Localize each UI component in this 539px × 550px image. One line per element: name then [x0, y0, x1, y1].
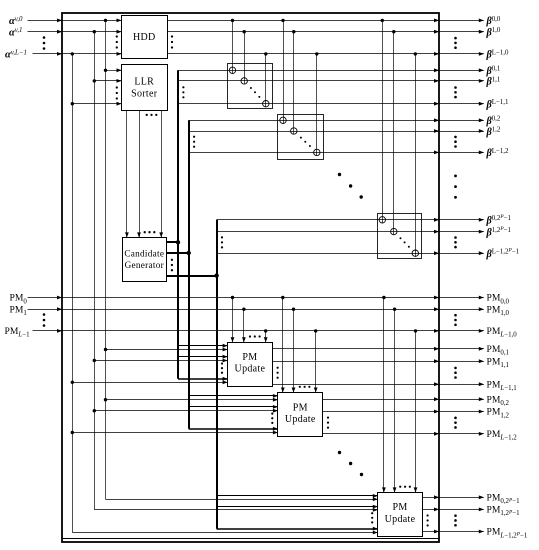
- wire PM tap vertical U3 1: [394, 309, 396, 492]
- wire PM tap vertical U1 1: [243, 309, 245, 342]
- wire PM tap vertical U2 2: [315, 331, 317, 393]
- wire beta output L&#8722;1,2P: [439, 253, 484, 255]
- block PM Update U2: [278, 393, 323, 437]
- ellipsis left of U2: [271, 413, 273, 415]
- ellipsis candidate generator outputs: [171, 259, 173, 261]
- ellipsis in beta group0 labels: [454, 37, 457, 40]
- wire U3 output 1 to border: [422, 509, 439, 511]
- wire beta output 0 group0: [439, 20, 484, 22]
- ellipsis HDD input: [116, 35, 118, 37]
- svg-text:Update: Update: [385, 514, 416, 525]
- block PM Update U3: [378, 493, 423, 537]
- block Candidate Generator: [123, 238, 167, 282]
- wire U1 output 2 to border: [272, 384, 439, 386]
- wire alpha feed to U2 input 1: [94, 410, 278, 412]
- wire HDD output row 0 to border: [167, 20, 439, 22]
- ellipsis left of U1: [221, 362, 223, 364]
- wire bus3 branch to U3 input 2: [217, 528, 378, 530]
- bus 3 vertical (thick): [216, 220, 218, 529]
- wire alpha feed to U3 input 2: [72, 532, 378, 534]
- wire U1 output 1 to label: [439, 361, 484, 363]
- wire LLR sorter input 1: [94, 80, 121, 82]
- wire U1 output 0 to border: [272, 348, 439, 350]
- wire U2 output 0 to border: [323, 399, 439, 401]
- wire U2 output 1 to border: [323, 411, 439, 413]
- wire beta row 0,2P horizontal: [217, 219, 439, 221]
- wire U3 output 2 to label: [439, 531, 484, 533]
- wire beta row L&#8722;1,2 horizontal: [189, 152, 439, 154]
- block HDD: [122, 16, 168, 59]
- crossbar box B: [278, 115, 324, 160]
- wire inner bottom rail: [62, 538, 439, 540]
- wire beta row 1,1 horizontal: [178, 80, 439, 82]
- outer border frame of architecture: [62, 13, 439, 542]
- wire HDD output row 1 to border: [167, 31, 439, 33]
- crossbar A switch node 0: [229, 67, 235, 73]
- wire beta output 1,2P: [439, 231, 484, 233]
- wire bus3 branch to U3 input 1: [217, 506, 378, 508]
- wire PM input row 0: [28, 297, 440, 299]
- wire alpha feed to U2 input 2: [72, 432, 278, 434]
- wire alpha input 2 to HDD: [33, 53, 122, 55]
- svg-text:PM: PM: [293, 402, 308, 413]
- wire beta output L&#8722;1,1: [439, 103, 484, 105]
- wire bus2 branch to U2 input 2: [189, 428, 278, 430]
- wire alpha input 1 to HDD: [28, 31, 122, 33]
- bus 2 vertical (thick): [188, 120, 190, 429]
- ellipsis diagonal between crossbars B and C: [338, 173, 341, 176]
- wire A tap vertical 0: [232, 20, 234, 73]
- ellipsis PM labels group U3: [454, 514, 457, 517]
- svg-text:Generator: Generator: [125, 260, 164, 270]
- wire candidate generator output 0 (thick): [167, 241, 178, 243]
- ellipsis HDD output: [171, 35, 173, 37]
- ellipsis diagonal between PM Update U2 and U3: [338, 451, 341, 454]
- wire beta output 0,2: [439, 120, 484, 122]
- ellipsis right of U2: [327, 417, 329, 419]
- svg-text:HDD: HDD: [133, 32, 156, 43]
- wire beta row 1,2 horizontal: [189, 131, 439, 133]
- wire LLR sorter input 2: [72, 103, 121, 105]
- wire PM passthrough output 2: [439, 330, 484, 332]
- wire bus2 branch to U2 input 0: [189, 395, 278, 397]
- wire U2 output 2 to border: [323, 433, 439, 435]
- wire alpha feed to U1 input 0: [106, 349, 228, 351]
- ellipsis beta labels group C: [454, 236, 457, 239]
- wire PM tap vertical U3 0: [383, 298, 385, 493]
- wire B tap vertical 1: [293, 32, 295, 135]
- wire C tap vertical 0: [382, 20, 384, 223]
- crossbar A dotted diagonal: [250, 87, 252, 89]
- ellipsis C bracket: [221, 236, 223, 238]
- svg-text:Sorter: Sorter: [131, 88, 158, 99]
- wire alpha feed to U1 input 1: [94, 360, 227, 362]
- wire PM passthrough output 1: [439, 309, 484, 311]
- wire alpha feed to U3 input 1: [94, 509, 378, 511]
- svg-text:Candidate: Candidate: [124, 248, 164, 258]
- wire bus1 branch to U1 input 1: [178, 356, 228, 358]
- wire alpha feed to U1 input 2: [72, 382, 227, 384]
- wire beta output 2 group0: [439, 53, 484, 55]
- wire A tap vertical 2: [265, 54, 267, 107]
- wire beta output 0,2P: [439, 219, 484, 221]
- crossbar C switch node 1: [391, 228, 397, 234]
- svg-text:PM: PM: [392, 502, 407, 513]
- ellipsis between PM input labels: [43, 313, 46, 316]
- block PM Update U1: [228, 343, 273, 387]
- wire alpha feed to U3 input 0: [106, 499, 378, 501]
- ellipsis LLR input: [116, 86, 118, 88]
- ellipsis right of U1: [277, 367, 279, 369]
- wire bus3 branch to U3 input 0: [217, 495, 378, 497]
- svg-text:LLR: LLR: [134, 77, 154, 88]
- crossbar box A: [228, 64, 273, 109]
- wire U2 output 2 to label: [439, 433, 484, 435]
- wire alpha feed to U2 input 0: [106, 399, 278, 401]
- wire LLR sorter output 0 to candidate generator: [126, 110, 128, 237]
- wire C tap vertical 1: [393, 32, 395, 235]
- wire beta row L&#8722;1,1 horizontal: [178, 103, 439, 105]
- wire beta output 1,1: [439, 80, 484, 82]
- crossbar C dotted diagonal: [399, 237, 401, 239]
- ellipsis beta big gap labels: [454, 175, 457, 178]
- ellipsis right of U3: [427, 514, 429, 516]
- wire PM tap vertical U2 1: [293, 309, 295, 392]
- wire U2 output 0 to label: [439, 399, 484, 401]
- wire beta row 1,2P horizontal: [217, 231, 439, 233]
- wire PM passthrough output 0: [439, 297, 484, 299]
- wire U1 output 1 to border: [272, 361, 439, 363]
- ellipsis above U3: [399, 486, 401, 488]
- ellipsis PM labels group U1: [454, 367, 457, 370]
- wire U1 output 0 to label: [439, 348, 484, 350]
- wire U1 output 2 to label: [439, 384, 484, 386]
- wire U3 output 1 to label: [439, 509, 484, 511]
- block LLR Sorter: [122, 65, 168, 111]
- wire PM tap vertical U1 2: [265, 331, 267, 342]
- crossbar C switch node 2: [412, 250, 418, 256]
- wire beta output L&#8722;1,2: [439, 152, 484, 154]
- crossbar B dotted diagonal: [300, 137, 302, 139]
- svg-text:Update: Update: [285, 414, 316, 425]
- ellipsis PM group0 labels: [454, 314, 457, 317]
- wire U2 output 1 to label: [439, 411, 484, 413]
- svg-text:Update: Update: [235, 364, 266, 375]
- ellipsis above U1: [249, 335, 251, 337]
- ellipsis left of U3: [371, 512, 373, 514]
- wire beta output 1,2: [439, 131, 484, 133]
- wire U3 output 0 to border: [422, 497, 439, 499]
- crossbar A switch node 1: [241, 78, 247, 84]
- wire C tap vertical 2: [415, 54, 417, 257]
- ellipsis PM labels group U2: [454, 417, 457, 420]
- wire B tap vertical 2: [316, 54, 318, 156]
- wire beta row L&#8722;1,2P horizontal: [217, 253, 439, 255]
- wire beta row 0,2 horizontal: [189, 120, 439, 122]
- wire bus1 branch to U1 input 2: [178, 378, 228, 380]
- wire candidate generator output 2 (thick): [167, 275, 217, 277]
- wire PM input row 1: [28, 309, 440, 311]
- crossbar box C: [378, 214, 422, 259]
- crossbar C switch node 0: [379, 217, 385, 223]
- wire bus1 branch to U1 input 0: [178, 345, 228, 347]
- ellipsis beta labels group A: [454, 86, 457, 89]
- wire LLR sorter output 1 to candidate generator: [139, 110, 141, 237]
- wire beta output 0,1: [439, 70, 484, 72]
- bus 1 vertical (thick): [177, 70, 179, 379]
- wire LLR sorter input 0: [106, 70, 122, 72]
- crossbar B switch node 1: [291, 128, 297, 134]
- crossbar B switch node 2: [314, 149, 320, 155]
- ellipsis above U2: [299, 386, 301, 388]
- wire PM input row 2: [33, 330, 440, 332]
- wire alpha input 0 to HDD: [28, 20, 122, 22]
- wire LLR sorter output 2 to candidate generator: [161, 110, 163, 237]
- wire PM tap vertical U1 0: [232, 298, 234, 343]
- ellipsis below LLR sorter: [146, 114, 148, 116]
- wire beta output 1 group0: [439, 31, 484, 33]
- ellipsis A bracket: [182, 86, 184, 88]
- crossbar B switch node 0: [280, 117, 286, 123]
- wire alpha tap vertical x72.3: [72, 54, 74, 533]
- wire B tap vertical 0: [283, 20, 285, 123]
- ellipsis beta labels group B: [454, 136, 457, 139]
- svg-text:PM: PM: [242, 352, 257, 363]
- wire beta row 0,1 horizontal: [178, 70, 439, 72]
- ellipsis B bracket: [193, 136, 195, 138]
- wire alpha tap vertical x105.5: [105, 20, 107, 499]
- wire U3 output 0 to label: [439, 497, 484, 499]
- wire A tap vertical 1: [244, 32, 246, 84]
- wire alpha tap vertical x94.3: [94, 32, 96, 510]
- ellipsis above candidate generator: [144, 231, 146, 233]
- wire candidate generator output 1 (thick): [167, 252, 189, 254]
- crossbar A switch node 2: [263, 101, 269, 107]
- wire U3 output 2 to border: [422, 531, 439, 533]
- wire HDD output row 2 to border: [167, 53, 439, 55]
- wire PM tap vertical U3 2: [415, 331, 417, 493]
- wire bus2 branch to U2 input 1: [189, 406, 278, 408]
- wire PM tap vertical U2 0: [282, 298, 284, 393]
- ellipsis between alpha labels: [43, 36, 46, 39]
